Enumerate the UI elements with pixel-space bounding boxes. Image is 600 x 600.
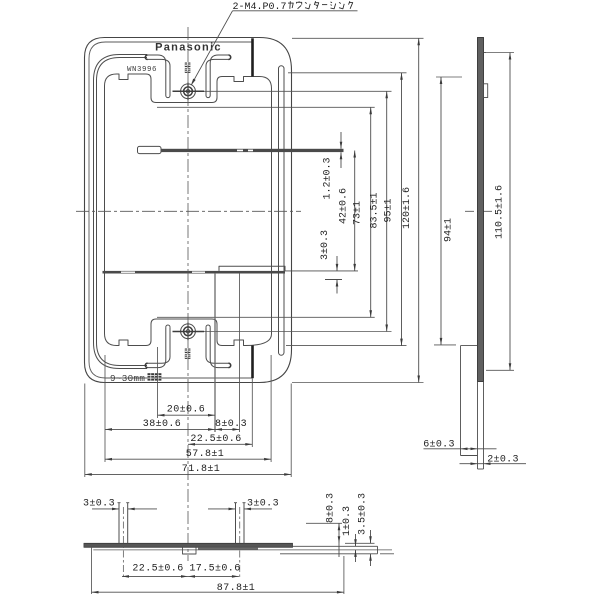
thick section mark bottom bbox=[251, 346, 254, 379]
top screw hole with countersink bbox=[181, 84, 196, 99]
side view plate bar bbox=[478, 38, 484, 382]
bottom view bar bbox=[84, 543, 293, 547]
bottom view bar lower line bbox=[93, 549, 392, 551]
svg-text:22.5±0.6: 22.5±0.6 bbox=[190, 434, 241, 445]
right side wall slot with round caps bbox=[279, 69, 285, 353]
side view small step top bbox=[484, 52, 487, 54]
bottom view right claw bbox=[235, 503, 237, 544]
lower-left J-hook slot bbox=[148, 327, 166, 368]
dimension 3±0.3 lower slot bbox=[336, 256, 338, 271]
svg-text:57.8±1: 57.8±1 bbox=[186, 449, 224, 460]
thick section mark top bbox=[251, 38, 254, 76]
dimension 42±0.6 bbox=[354, 151, 356, 271]
bottom view left claw bbox=[118, 503, 120, 544]
svg-text:94±1: 94±1 bbox=[444, 218, 455, 242]
side view top claw tab bbox=[484, 84, 488, 98]
dimension 1±0.3 bottom view bbox=[355, 534, 357, 546]
dimension 94±1 side view bbox=[436, 76, 462, 78]
svg-text:3±0.3: 3±0.3 bbox=[320, 230, 331, 260]
upper horizontal slot (1.2mm) bbox=[161, 149, 344, 152]
left claw centerline bbox=[122, 507, 124, 579]
side view centerline tick bbox=[465, 210, 496, 212]
lower-right J-hook slot bbox=[210, 327, 228, 368]
lower slot extension lines bbox=[285, 270, 358, 272]
svg-text:71.8±1: 71.8±1 bbox=[182, 464, 220, 475]
lower slot wide right portion bbox=[219, 266, 285, 271]
side view clamp claw flange bbox=[460, 346, 462, 456]
bottom screw cross line and 83.5 extension bbox=[173, 331, 391, 333]
dimension 8±0.3 bottom view bbox=[338, 523, 340, 557]
upper slot left tab bbox=[138, 146, 162, 153]
top screw cross line and 83.5 extension bbox=[173, 90, 391, 92]
dimension 95±1 bbox=[401, 73, 403, 346]
svg-text:1±0.3: 1±0.3 bbox=[342, 506, 353, 536]
svg-text:8±0.3: 8±0.3 bbox=[215, 419, 247, 430]
raised wall inner contour merging into hook slots bbox=[97, 58, 148, 366]
extension line window top (95) bbox=[288, 72, 407, 74]
svg-text:95±1: 95±1 bbox=[384, 198, 395, 222]
svg-text:3±0.3: 3±0.3 bbox=[247, 499, 279, 510]
svg-text:120±1.6: 120±1.6 bbox=[402, 187, 413, 229]
frame edge line behind bottom opening + 73 extension bbox=[157, 316, 375, 318]
extension line window bottom (95) bbox=[286, 345, 407, 347]
vertical centerline bbox=[187, 27, 189, 561]
svg-text:WN3996: WN3996 bbox=[127, 66, 157, 74]
horizontal centerline bbox=[76, 210, 301, 212]
ext lines right of arm bbox=[345, 542, 375, 544]
raised wall outer contour merging into hook slots bbox=[94, 55, 148, 369]
top alignment marks bbox=[185, 63, 191, 68]
lower horizontal slot (3mm) bbox=[103, 271, 286, 274]
svg-text:2-M4.P0.7: 2-M4.P0.7 bbox=[233, 2, 287, 13]
svg-text:17.5±0.6: 17.5±0.6 bbox=[189, 564, 240, 575]
frame edge line behind top opening + 73 extension bbox=[157, 106, 375, 108]
svg-text:8±0.3: 8±0.3 bbox=[326, 493, 337, 523]
bottom view left tip bbox=[83, 543, 85, 547]
extension line plate top bbox=[292, 37, 424, 39]
dimension 120±1.6 bbox=[418, 38, 420, 382]
extension line plate bottom bbox=[292, 382, 424, 384]
upper-left J-hook slot bbox=[148, 55, 166, 96]
plate outer outline, right corners sectioned large radius bbox=[85, 38, 292, 383]
svg-text:83.5±1: 83.5±1 bbox=[370, 192, 381, 228]
ext lines below front view bbox=[157, 347, 159, 418]
svg-text:1.2±0.3: 1.2±0.3 bbox=[323, 157, 334, 199]
side view lower thin tail bbox=[477, 382, 479, 470]
svg-text:20±0.6: 20±0.6 bbox=[167, 405, 205, 416]
bottom view right swing arm bbox=[293, 545, 378, 547]
svg-text:73±1: 73±1 bbox=[353, 201, 364, 225]
window cutout contour with screw bosses and notches bbox=[105, 74, 272, 346]
dimension 1.2±0.3 upper slot bbox=[340, 132, 342, 149]
dimension 3.5±0.3 bottom view bbox=[370, 530, 372, 543]
right claw centerline bbox=[239, 507, 241, 579]
upper-right J-hook slot bbox=[210, 55, 228, 96]
dimension 83.5±1 bbox=[386, 91, 388, 331]
bottom alignment marks bbox=[185, 349, 191, 354]
ext line for 8 dim bbox=[306, 522, 342, 524]
plate edge contour ending at section line bbox=[89, 42, 253, 378]
bottom view center tab bbox=[183, 547, 197, 554]
svg-text:110.5±1.6: 110.5±1.6 bbox=[495, 185, 506, 239]
dimension 87.8±1 bottom view bbox=[91, 547, 93, 594]
svg-text:22.5±0.6: 22.5±0.6 bbox=[132, 564, 183, 575]
svg-text:38±0.6: 38±0.6 bbox=[143, 419, 181, 430]
callout leader line bbox=[192, 11, 232, 83]
bottom screw hole bbox=[181, 324, 196, 339]
svg-text:42±0.6: 42±0.6 bbox=[339, 188, 350, 224]
dimension 110.5±1.6 side view bbox=[484, 52, 514, 54]
svg-text:9~30mm: 9~30mm bbox=[110, 373, 145, 384]
dimension 73±1 bbox=[370, 107, 372, 317]
svg-text:3.5±0.3: 3.5±0.3 bbox=[358, 493, 369, 535]
bottom view dark segment bbox=[198, 547, 258, 549]
callout underline bbox=[233, 10, 358, 12]
svg-text:3±0.3: 3±0.3 bbox=[83, 499, 115, 510]
